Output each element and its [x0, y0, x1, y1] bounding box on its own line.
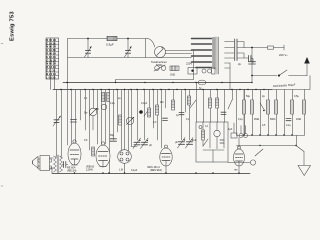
trimmer capacitor C1: [85, 39, 92, 58]
capacitor C12: [64, 162, 66, 168]
right verticals: [232, 90, 234, 101]
svg-text:E 16 44: E 16 44: [46, 55, 56, 59]
trimmer capacitor C14: [141, 138, 153, 149]
speaker LS: [33, 156, 52, 171]
capacitor C3 plates: [235, 39, 237, 61]
resistor R2: [170, 66, 179, 71]
capacitor C9: [163, 118, 168, 120]
svg-text:R 96 34: R 96 34: [46, 52, 56, 56]
svg-text:L 08 28: L 08 28: [46, 75, 56, 79]
svg-text:1204): 1204): [86, 168, 93, 172]
mains end: [283, 45, 285, 50]
svg-text:5000: 5000: [270, 118, 276, 121]
node B: [127, 38, 129, 40]
svg-text:Eswig 753: Eswig 753: [10, 11, 16, 41]
svg-text:(RES 964): (RES 964): [150, 169, 162, 172]
tube V1 RE604: [67, 140, 81, 173]
left vertical wires: [56, 90, 58, 157]
bottom left drops: [52, 156, 61, 173]
resistor R11: [202, 130, 205, 140]
wire pickup to transformer upper: [166, 50, 192, 52]
tiny labels lower area: [84, 101, 233, 172]
wire lamp to tube3: [131, 146, 137, 148]
wire vertical right of pickup: [193, 51, 195, 80]
trimmer capacitor C16: [178, 138, 186, 149]
svg-text:B 24 13: B 24 13: [46, 72, 56, 76]
svg-text:0,1µF: 0,1µF: [131, 169, 138, 172]
wire shelf: [116, 80, 194, 83]
trimmer capacitor C13: [133, 138, 141, 149]
main rail upper: [63, 82, 252, 84]
svg-text:0,1µ: 0,1µ: [238, 118, 243, 121]
resistor R3: [102, 93, 105, 102]
capacitor C11: [221, 112, 226, 114]
resistor R5: [148, 108, 151, 117]
voltage selector: [186, 62, 215, 75]
wire top loop upper: [68, 38, 148, 40]
middle verticals: [117, 90, 119, 133]
svg-text:0,2µ: 0,2µ: [110, 102, 115, 105]
node A: [87, 38, 89, 40]
antenna arrow: [304, 57, 310, 76]
svg-text:µF: µF: [149, 144, 152, 147]
capacitor C5: [238, 62, 256, 66]
transformer T1 primary winding bars: [192, 39, 212, 68]
svg-text:50µ: 50µ: [110, 134, 115, 137]
transformer T1 core: [217, 37, 218, 74]
svg-text:2µ: 2µ: [238, 62, 241, 66]
transformer T1 left winding zigzag: [212, 37, 216, 69]
capacitor C4 plates: [249, 56, 251, 62]
wire table feeds: [51, 79, 55, 89]
svg-text:0,5µ: 0,5µ: [294, 95, 299, 98]
fuse Si on rail: [198, 80, 206, 90]
tube V2 RENS1204: [86, 142, 110, 172]
svg-text:2M: 2M: [160, 101, 163, 104]
resistor R15: [274, 100, 277, 114]
resistor R7: [172, 100, 175, 110]
svg-text:R 13 24: R 13 24: [46, 65, 56, 69]
svg-text:E 11 32: E 11 32: [46, 69, 56, 73]
secondary tap wires: [225, 42, 235, 69]
wire right rail drop: [296, 146, 304, 152]
switch S2: [278, 70, 307, 77]
jack J1: [250, 160, 255, 165]
svg-text:N 60 34: N 60 34: [46, 62, 56, 66]
capacitor C10: [179, 113, 184, 115]
resistor R4: [107, 93, 110, 102]
resistor R1: [106, 36, 117, 46]
coil L4 variable: [126, 117, 134, 125]
svg-text:L.B: L.B: [119, 168, 123, 172]
svg-text:0,1µ: 0,1µ: [286, 124, 291, 127]
switch S7: [260, 103, 265, 111]
svg-text:N 90 14: N 90 14: [46, 45, 56, 49]
svg-text:0,1µF: 0,1µF: [141, 102, 148, 105]
wire top loop lower: [68, 57, 192, 59]
components above tube V5: [231, 123, 248, 147]
coil L1 variable: [84, 108, 97, 130]
switch S1: [154, 65, 166, 71]
switch S5: [203, 139, 208, 146]
svg-text:2MΩ: 2MΩ: [254, 118, 259, 121]
trimmer capacitor C2: [125, 39, 132, 58]
junction dots rail lower: [60, 82, 264, 90]
rail corner right: [272, 76, 310, 90]
tiny value labels right bank: [238, 95, 301, 127]
svg-text:R 35 18: R 35 18: [46, 38, 56, 42]
mid-left verticals: [85, 90, 87, 131]
svg-text:220 V~: 220 V~: [279, 53, 288, 57]
svg-text:1MΩ: 1MΩ: [170, 74, 175, 77]
junction dots bottom: [74, 172, 240, 173]
resistor R12: [242, 90, 245, 136]
resistor R18: [119, 115, 122, 125]
svg-text:50µ: 50µ: [246, 95, 251, 98]
bottom rail secondary: [228, 162, 250, 164]
resistor R19: [92, 147, 95, 156]
switch S8: [255, 149, 263, 156]
switch S6: [228, 100, 232, 109]
svg-text:5w: 5w: [84, 111, 87, 115]
bottom rail main: [52, 173, 250, 175]
tube V4 RES164: [148, 145, 173, 174]
resistor R14: [266, 100, 269, 114]
coil L3: [214, 130, 220, 136]
coil L2: [101, 104, 107, 110]
svg-text:S 12 28: S 12 28: [46, 48, 56, 52]
IF can box: [196, 122, 228, 162]
pickup P1: [151, 47, 167, 67]
rail mid right: [237, 135, 305, 137]
resistor R16: [290, 100, 293, 114]
parts table: [46, 38, 59, 79]
svg-text:220V: 220V: [186, 62, 192, 66]
rail low right: [237, 145, 297, 147]
wire mains right: [237, 47, 284, 49]
trimmer capacitor C6: [53, 116, 61, 126]
svg-text:E 14 26: E 14 26: [46, 41, 56, 45]
resistor R8: [188, 96, 191, 105]
page border marks: [1, 44, 3, 187]
main rail lower: [53, 89, 272, 91]
wire vertical join: [145, 39, 147, 58]
resistor R6: [156, 105, 159, 115]
tube V3 socket lamp: [118, 150, 132, 174]
tube V5 RES964: [234, 146, 245, 174]
svg-text:G 35 24: G 35 24: [46, 58, 56, 62]
capacitor C15: [286, 119, 291, 121]
wire pickup to transformer lower: [165, 53, 192, 55]
wire left vertical: [67, 39, 69, 83]
svg-text:4µF: 4µF: [228, 128, 233, 131]
junction dots right rails: [243, 134, 296, 146]
capacitor C8: [110, 139, 117, 141]
resistor R17: [302, 100, 305, 114]
wire tap down: [229, 63, 231, 90]
resistor R13: [250, 100, 253, 114]
svg-text:600Ω: 600Ω: [156, 63, 162, 67]
wire node down: [251, 48, 253, 83]
trimmer capacitor C17: [186, 138, 197, 149]
svg-text:1MΩ: 1MΩ: [296, 118, 301, 121]
switch S4: [190, 100, 196, 108]
resistor R10: [216, 98, 219, 108]
svg-text:(RE134): (RE134): [67, 170, 76, 173]
ladder joiners: [237, 42, 248, 59]
capacitor C7: [71, 120, 77, 123]
misc tiny labels: [84, 74, 209, 129]
jack dot: [139, 110, 143, 114]
ground: [298, 152, 311, 176]
wire feedback rail: [252, 75, 277, 77]
output transformer T2: [50, 155, 63, 173]
fuse F1: [268, 46, 274, 49]
switch S3: [144, 108, 150, 116]
wire bend to pickup: [147, 39, 155, 48]
svg-text:0,3µF: 0,3µF: [106, 43, 114, 47]
resistor R9: [209, 98, 212, 108]
